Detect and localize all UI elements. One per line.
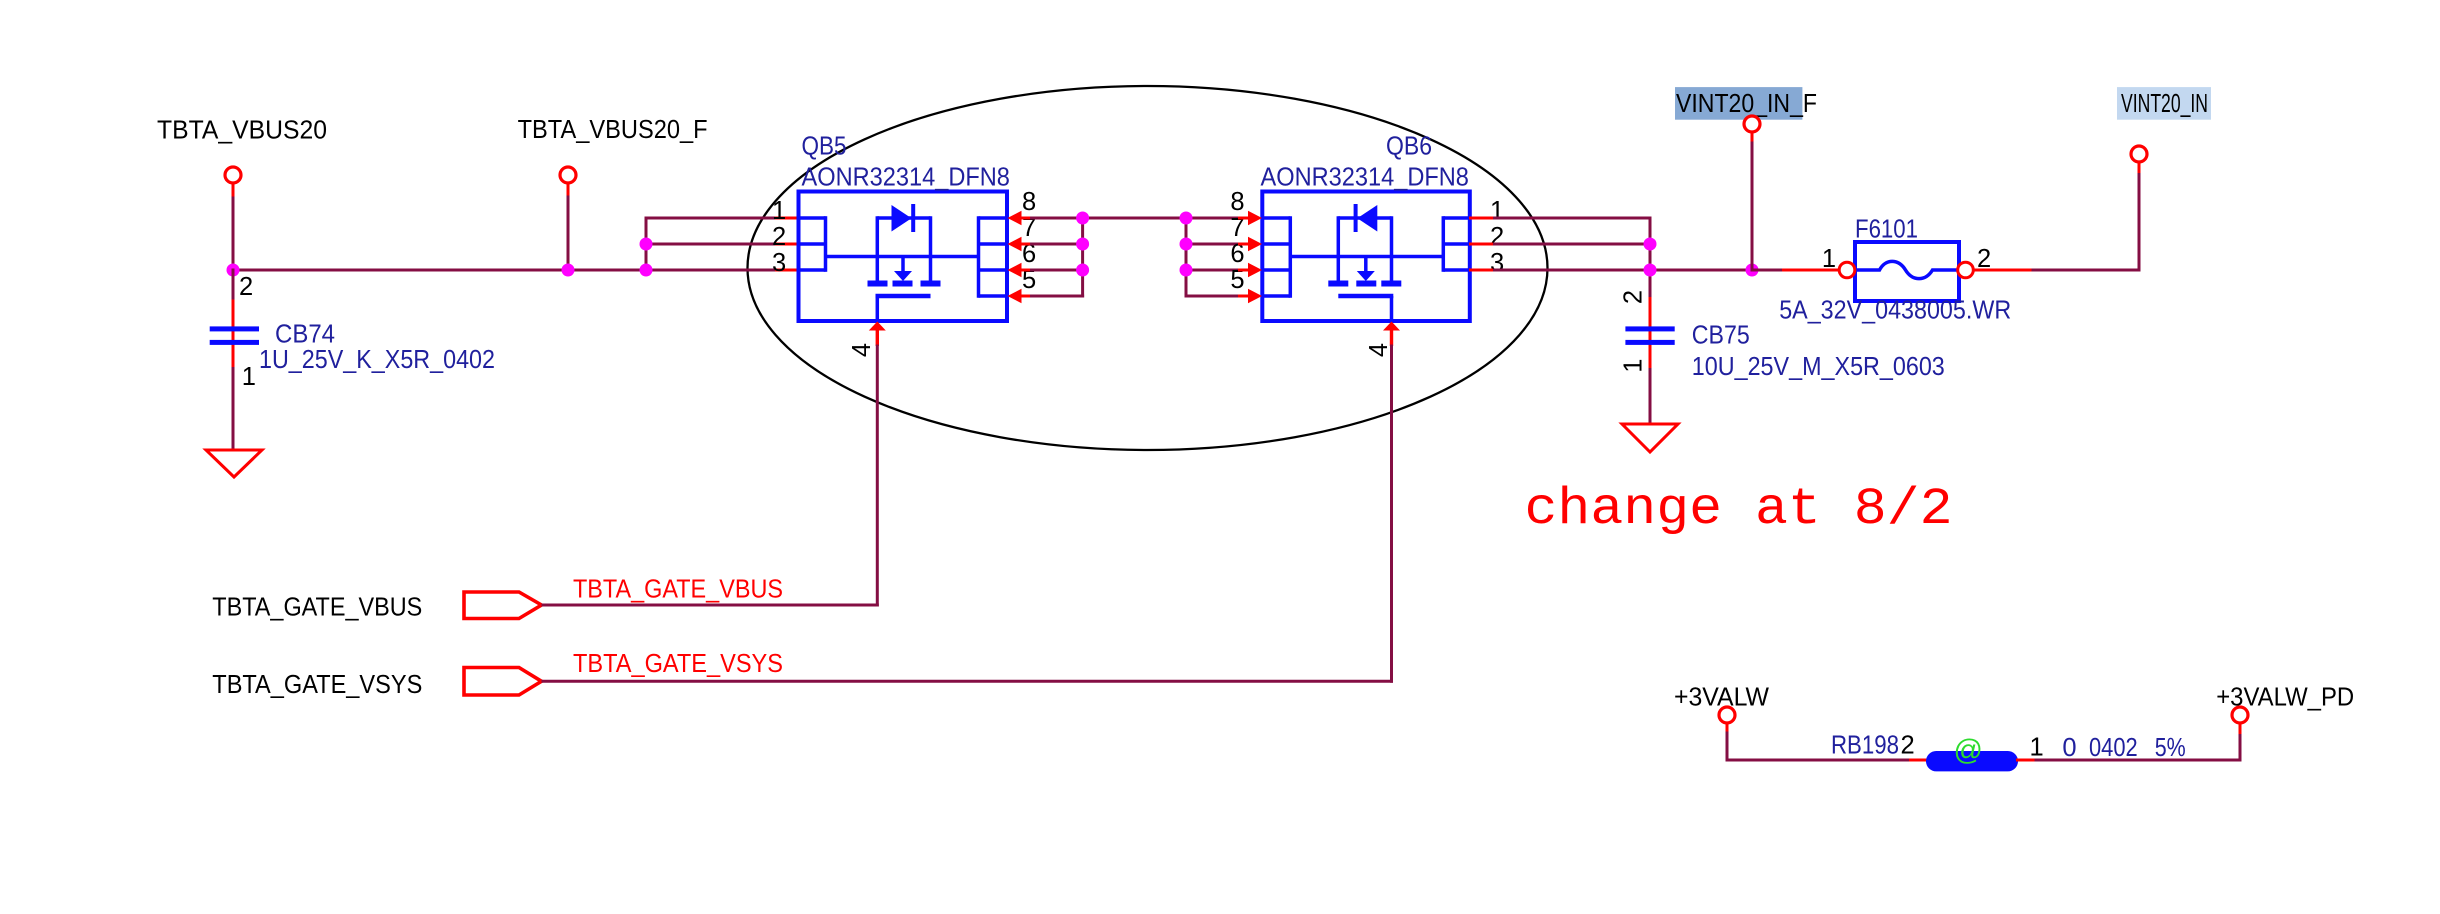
- capacitor CB74: [232, 298, 235, 327]
- capacitor CB75: [1649, 297, 1652, 327]
- pin stub RB1982 pin2 red: [1909, 759, 1928, 762]
- svg-text:QB6: QB6: [1386, 133, 1432, 161]
- pin stub RB1982 pin1 red: [2016, 759, 2036, 762]
- wire +3VALW red stub: [1726, 723, 1729, 733]
- wire TBTA_GATE_VSYS: [542, 680, 1394, 683]
- svg-text:5%: 5%: [2155, 734, 2186, 762]
- svg-text:4: 4: [1365, 343, 1393, 357]
- junction dot 1650,244: [1644, 238, 1657, 251]
- svg-text:+3VALW_PD: +3VALW_PD: [2216, 683, 2354, 711]
- svg-text:F6101: F6101: [1855, 216, 1918, 244]
- wire TBTA_GATE_VBUS: [542, 604, 879, 607]
- pin stub QB5 pin2 red: [775, 243, 799, 246]
- pin arrow QB5 pin 7: [1008, 237, 1022, 251]
- wire CB74 pin2: [232, 269, 235, 300]
- transistor QB5 box: [799, 192, 1008, 322]
- wire TBTA_VBUS20_F drop: [567, 196, 570, 272]
- svg-text:CB74: CB74: [275, 320, 335, 348]
- wire main bus left: [232, 269, 777, 272]
- junction dot 568,270: [562, 264, 575, 277]
- port symbol TBTA_GATE_VBUS: [464, 592, 542, 619]
- terminal +3VALW_PD: [2232, 707, 2248, 723]
- junction dot 1650,270: [1644, 264, 1657, 277]
- svg-text:RB198: RB198: [1831, 732, 1899, 760]
- wire VINT20_IN drop: [2138, 172, 2141, 272]
- wire QB6 pin3 to bus: [1493, 269, 1650, 272]
- svg-text:AONR32314_DFN8: AONR32314_DFN8: [802, 164, 1010, 192]
- fuse F6101 body: [1855, 242, 1959, 301]
- annotation ellipse around QB5/QB6: [748, 86, 1548, 450]
- wire to QB5 pin1: [645, 217, 777, 220]
- wire TBTA_VBUS20 drop: [232, 197, 235, 272]
- junction dot 1186,270: [1180, 264, 1193, 277]
- wire TBTA_VBUS20_F red stub: [567, 183, 570, 197]
- ground symbol CB75: [1622, 424, 1678, 452]
- svg-text:1U_25V_K_X5R_0402: 1U_25V_K_X5R_0402: [259, 346, 495, 374]
- wire fuse to VINT20_IN corner: [2032, 269, 2141, 272]
- pin arrow QB6 pin 7: [1248, 237, 1262, 251]
- wire CB75 pin1 to ground: [1649, 368, 1652, 424]
- svg-text:QB5: QB5: [802, 133, 847, 161]
- wire RB1982 to +3VALW_PD: [2035, 759, 2242, 762]
- fuse pin1 circle: [1839, 262, 1855, 278]
- wire VINT20_IN red stub: [2138, 162, 2141, 173]
- svg-text:1: 1: [242, 363, 256, 391]
- svg-text:3: 3: [1490, 249, 1504, 277]
- wire row pin8 QB5 to QB6: [1030, 217, 1239, 220]
- wire vertical bus left of QB6: [1185, 217, 1188, 298]
- svg-text:change at 8/2: change at 8/2: [1525, 480, 1953, 539]
- transistor QB6 box: [1262, 192, 1470, 322]
- svg-text:5A_32V_0438005.WR: 5A_32V_0438005.WR: [1779, 297, 2011, 325]
- wire row pin6 left: [1030, 269, 1083, 272]
- pin stub QB6 pin1 red: [1469, 217, 1494, 220]
- wire +3VALW drop: [1726, 732, 1729, 762]
- resistor RB1982 body: [1926, 751, 2018, 771]
- transistor QB6 internal mosfet symbol (mirrored): [1443, 216, 1470, 220]
- svg-text:TBTA_VBUS20_F: TBTA_VBUS20_F: [518, 116, 708, 144]
- terminal VINT20_IN_F: [1744, 116, 1760, 132]
- pin arrow QB5 pin 5: [1008, 289, 1022, 303]
- junction dot 1082,218: [1076, 212, 1089, 225]
- wire to QB5 pin2: [645, 243, 777, 246]
- pin stub QB5 pin1 red: [775, 217, 799, 220]
- svg-text:10U_25V_M_X5R_0603: 10U_25V_M_X5R_0603: [1692, 353, 1945, 381]
- wire junction to fuse: [1752, 269, 1783, 272]
- svg-text:2: 2: [1901, 732, 1915, 760]
- wire red stub after fuse pin2: [1973, 269, 2033, 272]
- terminal TBTA_VBUS20_F: [560, 167, 576, 183]
- wire vertical bus right of QB5: [1081, 217, 1084, 298]
- svg-text:1: 1: [2030, 734, 2044, 762]
- wire red stub before fuse pin1: [1782, 269, 1840, 272]
- svg-text:TBTA_GATE_VBUS: TBTA_GATE_VBUS: [212, 594, 422, 622]
- svg-text:TBTA_GATE_VSYS: TBTA_GATE_VSYS: [212, 671, 422, 699]
- svg-text:1: 1: [772, 197, 786, 225]
- pin stub QB6 pin2 red: [1469, 243, 1494, 246]
- wire TBTA_GATE_VBUS vertical: [876, 345, 879, 607]
- pin arrow QB6 pin 8: [1248, 211, 1262, 225]
- svg-text:0: 0: [2062, 734, 2076, 762]
- svg-text:0402: 0402: [2089, 734, 2138, 762]
- wire VINT20_IN_F red stub: [1751, 132, 1754, 143]
- svg-text:2: 2: [1490, 223, 1504, 251]
- wire row pin7 left: [1030, 243, 1083, 246]
- wire bus to VINT junction: [1650, 269, 1752, 272]
- terminal VINT20_IN: [2131, 146, 2147, 162]
- junction dot 1082,244: [1076, 238, 1089, 251]
- svg-text:VINT20_IN: VINT20_IN: [2121, 90, 2208, 118]
- junction dot 233,270: [227, 264, 240, 277]
- svg-text:TBTA_VBUS20: TBTA_VBUS20: [157, 117, 327, 145]
- svg-text:8: 8: [1230, 188, 1244, 216]
- wire vertical bus left of QB5: [645, 217, 648, 272]
- transistor QB5 internal mosfet symbol: [799, 216, 826, 220]
- wire row pin7 right: [1186, 243, 1239, 246]
- svg-text:@: @: [1954, 735, 1983, 767]
- pin stub QB6 pin3 red: [1469, 269, 1494, 272]
- svg-text:3: 3: [772, 249, 786, 277]
- junction dot 646,270: [640, 264, 653, 277]
- svg-text:1: 1: [1822, 245, 1836, 273]
- svg-text:1: 1: [1620, 359, 1648, 373]
- wire vertical bus 1650: [1649, 217, 1652, 299]
- wire +3VALW_PD red stub: [2239, 723, 2242, 734]
- pin arrow QB5 pin 8: [1008, 211, 1022, 225]
- wire +3VALW_PD drop: [2239, 732, 2242, 762]
- svg-text:VINT20_IN_F: VINT20_IN_F: [1676, 90, 1817, 118]
- terminal TBTA_VBUS20: [225, 167, 241, 183]
- junction dot 1752,270: [1746, 264, 1759, 277]
- junction dot 1082,270: [1076, 264, 1089, 277]
- wire QB6 pin1 to bus: [1493, 217, 1652, 220]
- pin arrow QB5 pin 6: [1008, 263, 1022, 277]
- svg-text:TBTA_GATE_VSYS: TBTA_GATE_VSYS: [573, 650, 783, 678]
- pin arrow QB6 pin 4: [1383, 322, 1400, 331]
- node VINT20_IN_F highlight: [1675, 87, 1802, 120]
- ground symbol CB74: [206, 450, 262, 477]
- fuse pin2 circle: [1958, 262, 1974, 278]
- terminal +3VALW: [1719, 707, 1735, 723]
- junction dot 1186,218: [1180, 212, 1193, 225]
- pin stub QB5 pin3 red: [775, 269, 799, 272]
- svg-text:2: 2: [1620, 290, 1648, 304]
- wire TBTA_GATE_VSYS vertical: [1390, 345, 1393, 683]
- svg-text:AONR32314_DFN8: AONR32314_DFN8: [1261, 164, 1469, 192]
- wire CB74 pin1 to ground: [232, 367, 235, 450]
- junction dot 646,244: [640, 238, 653, 251]
- wire TBTA_VBUS20 red stub: [232, 183, 235, 198]
- svg-text:8: 8: [1022, 188, 1036, 216]
- wire row pin5 right: [1185, 295, 1240, 298]
- svg-text:2: 2: [772, 223, 786, 251]
- svg-text:CB75: CB75: [1692, 322, 1750, 350]
- svg-text:TBTA_GATE_VBUS: TBTA_GATE_VBUS: [573, 576, 783, 604]
- junction dot 1186,244: [1180, 238, 1193, 251]
- svg-text:1: 1: [1490, 197, 1504, 225]
- port symbol TBTA_GATE_VSYS: [464, 668, 542, 696]
- svg-text:2: 2: [239, 273, 253, 301]
- pin arrow QB6 pin 5: [1248, 289, 1262, 303]
- wire QB6 pin2 to bus: [1493, 243, 1650, 246]
- pin arrow QB5 pin 4: [869, 322, 886, 331]
- wire +3VALW to RB1982: [1726, 759, 1911, 762]
- wire row pin6 right: [1186, 269, 1239, 272]
- svg-text:4: 4: [848, 343, 876, 357]
- wire VINT20_IN_F drop: [1751, 142, 1754, 272]
- wire row pin5 left: [1030, 295, 1084, 298]
- pin arrow QB6 pin 6: [1248, 263, 1262, 277]
- node VINT20_IN highlight: [2117, 87, 2211, 120]
